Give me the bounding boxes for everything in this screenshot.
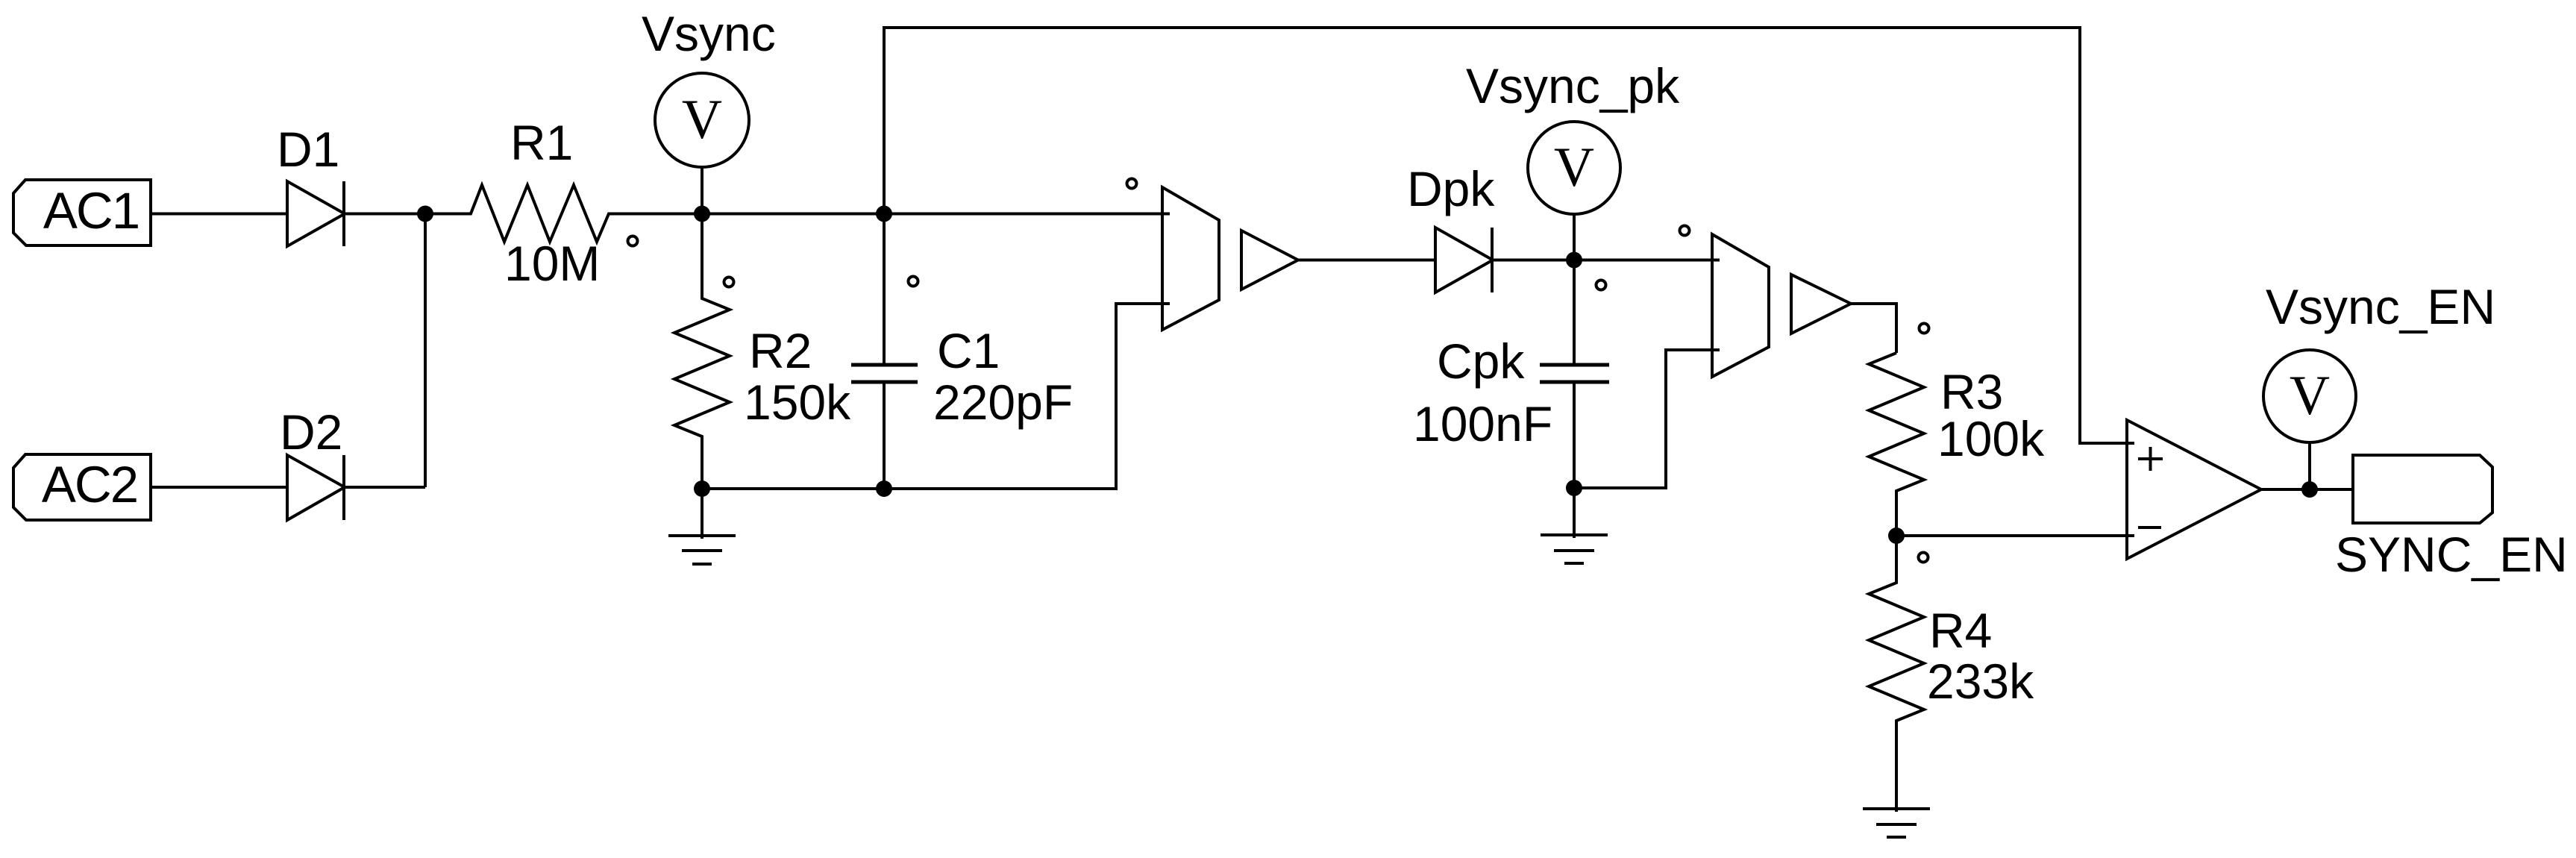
- node F dot: [1566, 252, 1582, 269]
- wire AC2 to D2: [151, 486, 287, 489]
- output flag SYNC_EN: [2353, 455, 2492, 523]
- node D dot: [694, 480, 710, 497]
- pin circle C1 top: [909, 277, 918, 286]
- wire Dpk to node F: [1492, 259, 1574, 262]
- wire node F to buffer U2: [1574, 259, 1720, 262]
- svg-text:100k: 100k: [1937, 411, 2045, 466]
- svg-text:AC2: AC2: [42, 456, 137, 513]
- pin circle U1: [1127, 179, 1137, 189]
- diode D2 cathode bar: [342, 455, 345, 520]
- top feedback wire node C to comparator plus input: [884, 28, 2134, 443]
- wire node H to comparator minus input: [1896, 534, 2134, 537]
- capacitor Cpk bottom lead: [1573, 382, 1576, 488]
- svg-text:R1: R1: [510, 115, 573, 170]
- svg-text:D2: D2: [280, 404, 342, 460]
- svg-text:V: V: [1554, 137, 1594, 198]
- svg-text:V: V: [682, 89, 722, 151]
- wire U1 out to Dpk: [1298, 259, 1435, 262]
- pin circle U2: [1680, 226, 1690, 236]
- svg-text:Dpk: Dpk: [1407, 161, 1495, 216]
- pin circle node F: [1596, 281, 1606, 290]
- wire node C to buffer U1 input: [884, 213, 1170, 216]
- capacitor C1 plates: [851, 363, 918, 367]
- voltmeter Vsync_EN: [2263, 350, 2356, 442]
- capacitor C1 top lead: [883, 214, 886, 366]
- input flag AC2: [13, 454, 151, 520]
- svg-text:100nF: 100nF: [1413, 396, 1552, 451]
- buffer U2 trapezoid: [1712, 234, 1769, 377]
- node C dot: [876, 206, 892, 222]
- diode Dpk cathode bar: [1491, 228, 1494, 292]
- resistor R3: [1869, 353, 1924, 536]
- buffer U2 output triangle: [1791, 275, 1851, 334]
- wire comparator out to flag: [2261, 488, 2353, 491]
- wire U2 out to R3: [1851, 304, 1896, 353]
- wire D2 to node A vertical: [344, 486, 425, 489]
- svg-text:Vsync_EN: Vsync_EN: [2266, 279, 2495, 334]
- voltmeter Vsync_pk stem: [1573, 214, 1576, 260]
- comparator plus sign: [2138, 457, 2163, 460]
- voltmeter Vsync stem: [701, 167, 703, 214]
- resistor R1: [425, 185, 702, 242]
- node I dot: [2301, 481, 2318, 498]
- comparator minus sign: [2138, 526, 2161, 529]
- buffer U1 output triangle: [1241, 231, 1298, 289]
- voltmeter Vsync_pk: [1528, 122, 1620, 214]
- voltmeter Vsync: [655, 73, 749, 167]
- node B dot: [694, 206, 710, 222]
- resistor R4: [1869, 536, 1924, 812]
- svg-text:AC1: AC1: [43, 182, 139, 239]
- voltmeter Vsync_EN stem: [2308, 442, 2311, 489]
- bottom rail node D to buffer U1 lower input: [702, 304, 1170, 489]
- wire AC1 to D1: [151, 213, 287, 216]
- svg-text:C1: C1: [937, 323, 1000, 378]
- wire node A down to D2 rail: [424, 214, 427, 488]
- buffer U1 trapezoid: [1162, 187, 1219, 330]
- svg-text:D1: D1: [277, 122, 339, 177]
- pin circle R2 top: [724, 278, 734, 287]
- capacitor C1 bottom lead: [883, 382, 886, 489]
- comparator U3: [2127, 420, 2261, 559]
- wire node B to node C: [702, 213, 884, 216]
- capacitor Cpk top lead: [1573, 260, 1576, 366]
- pin circle R1 right: [628, 237, 638, 246]
- diode D1 cathode bar: [342, 181, 345, 246]
- svg-text:220pF: 220pF: [933, 375, 1073, 430]
- capacitor Cpk plates: [1540, 363, 1609, 367]
- node A junction dot: [417, 206, 433, 222]
- svg-text:Vsync_pk: Vsync_pk: [1466, 58, 1680, 113]
- diode D1: [287, 181, 345, 246]
- ground under Cpk: [1573, 488, 1576, 538]
- wire node G to U2 lower input: [1574, 350, 1720, 488]
- pin circle R3 top: [1920, 324, 1929, 334]
- diode D2: [287, 455, 345, 520]
- node E dot: [876, 480, 892, 497]
- node H dot: [1888, 527, 1905, 544]
- svg-text:R2: R2: [749, 323, 812, 378]
- svg-text:V: V: [2290, 365, 2330, 427]
- svg-text:Vsync: Vsync: [642, 6, 776, 61]
- pin circle node H: [1919, 553, 1928, 563]
- ground under R4: [1863, 807, 1930, 810]
- wire D1 to node A: [344, 213, 425, 216]
- svg-text:10M: 10M: [504, 236, 600, 291]
- input flag AC1: [13, 180, 151, 245]
- svg-text:150k: 150k: [744, 375, 851, 430]
- svg-text:Cpk: Cpk: [1437, 334, 1525, 389]
- diode Dpk: [1435, 228, 1493, 292]
- resistor R2: [674, 214, 730, 489]
- svg-text:SYNC_EN: SYNC_EN: [2335, 527, 2568, 582]
- svg-text:R4: R4: [1929, 603, 1992, 658]
- svg-text:233k: 233k: [1927, 654, 2034, 709]
- ground under R2: [701, 489, 703, 539]
- node G dot: [1566, 480, 1582, 496]
